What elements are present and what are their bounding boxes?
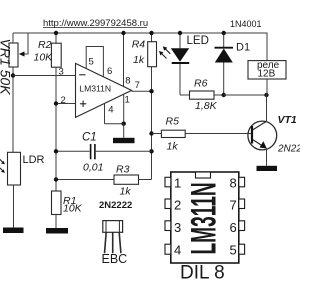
svg-text:R4: R4 xyxy=(132,39,146,51)
svg-text:R6: R6 xyxy=(194,78,208,90)
svg-text:VR1 50K: VR1 50K xyxy=(0,39,14,96)
svg-text:LM311N: LM311N xyxy=(79,84,111,94)
svg-text:0,01: 0,01 xyxy=(83,162,103,174)
svg-text:C1: C1 xyxy=(82,132,97,144)
svg-text:6: 6 xyxy=(107,66,112,77)
svg-text:5: 5 xyxy=(89,57,94,68)
svg-text:12В: 12В xyxy=(258,69,276,80)
svg-text:1k: 1k xyxy=(120,186,132,198)
svg-text:1k: 1k xyxy=(133,54,145,66)
svg-text:LDR: LDR xyxy=(23,154,45,166)
svg-text:7: 7 xyxy=(230,198,237,213)
svg-text:3: 3 xyxy=(174,220,181,235)
svg-text:EBC: EBC xyxy=(102,252,128,266)
svg-text:5: 5 xyxy=(230,243,237,258)
svg-text:1N4001: 1N4001 xyxy=(230,19,262,29)
svg-text:2N2222: 2N2222 xyxy=(99,200,132,211)
svg-text:4: 4 xyxy=(174,243,181,258)
svg-text:VT1: VT1 xyxy=(278,114,297,126)
svg-text:2: 2 xyxy=(61,95,66,106)
svg-text:2N2222: 2N2222 xyxy=(277,144,300,155)
svg-text:1: 1 xyxy=(125,95,130,106)
svg-text:3: 3 xyxy=(59,67,64,78)
svg-text:8: 8 xyxy=(125,75,130,86)
svg-text:R5: R5 xyxy=(166,115,180,127)
svg-text:1,8K: 1,8K xyxy=(195,100,218,112)
svg-text:8: 8 xyxy=(230,176,237,191)
svg-text:10K: 10K xyxy=(63,203,83,215)
svg-text:2: 2 xyxy=(174,198,181,213)
svg-text:6: 6 xyxy=(230,220,237,235)
svg-text:1: 1 xyxy=(174,176,181,191)
svg-text:D1: D1 xyxy=(236,42,250,54)
svg-text:LM311N: LM311N xyxy=(183,182,223,254)
svg-text:7: 7 xyxy=(135,80,140,91)
svg-text:R3: R3 xyxy=(116,164,130,176)
svg-text:R2: R2 xyxy=(38,39,52,51)
svg-text:10K: 10K xyxy=(34,52,54,64)
svg-text:LED: LED xyxy=(187,35,209,47)
svg-text:DIL 8: DIL 8 xyxy=(180,263,225,284)
svg-text:4: 4 xyxy=(108,105,113,116)
svg-text:1k: 1k xyxy=(167,140,179,152)
